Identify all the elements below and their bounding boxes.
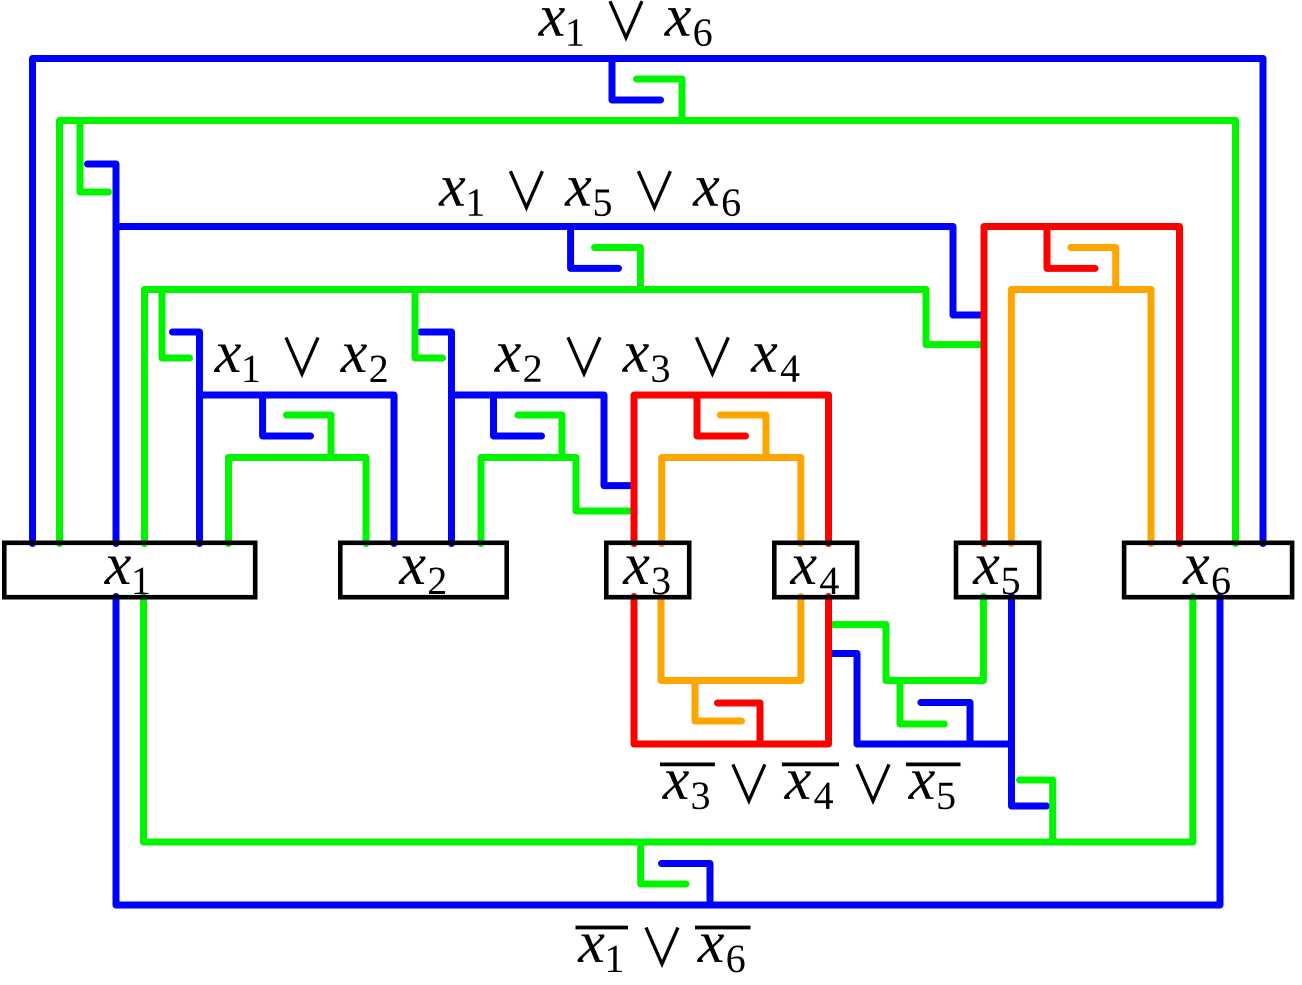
wire blue clause x1vx6 top run from box x1 up across and down into box x6: [33, 59, 1264, 544]
wire green hook of nx5 link: [900, 681, 944, 725]
wire green rise hook interlocking blue x5 tail: [1020, 780, 1053, 842]
wire green stub hook interlocking blue x1vx5vx6 vertical: [80, 121, 109, 193]
wire blue center hook of clause x1vx5vx6: [571, 227, 619, 269]
wire green center hook of clause x2vx3vx4: [518, 415, 562, 458]
wire green clause nx1vnx6 bottom run from box x1 down across and up into box x6: [144, 597, 1193, 843]
wire blue bottom-center hook of clause nx1vnx6: [662, 864, 711, 906]
wire red hook interlocking orange at x5x6 loop: [1047, 227, 1095, 269]
wire orange hook interlocking red at x5x6 loop: [1071, 248, 1116, 290]
label clause x2 or x3 or x4: [494, 344, 521, 372]
wire green top-center hook of clause x1vx6: [637, 79, 683, 121]
wire blue clause x2vx3vx4 vertical into box x2 with interlock hook: [421, 332, 452, 544]
wire green stub hook interlocking blue x1vx2 vertical: [162, 290, 190, 359]
wire orange loop top through boxes x3 x4: [662, 458, 801, 544]
label of variable box x3: [622, 556, 649, 584]
wire blue clause x1vx5vx6 main run ending at red loop: [116, 227, 984, 316]
variable box x4: [774, 543, 857, 597]
label of variable box x2: [399, 556, 426, 584]
wire orange loop bottom through boxes x3 x4: [661, 597, 801, 681]
wire blue below box x5 tail hooking green bottom loop: [1012, 597, 1047, 807]
wire blue clause x1vx5vx6 vertical into box x1 with interlock hook: [88, 164, 117, 544]
wire red loop top through boxes x3 x4: [634, 395, 829, 544]
label clause not-x1 or not-x6: [577, 934, 604, 962]
wire red loop bottom through boxes x3 x4 clause nx3vnx4vnx5: [634, 597, 829, 745]
wire orange bottom hook interlocking red: [695, 681, 742, 722]
wire green stub hook interlocking blue x2vx3vx4 vertical: [415, 290, 443, 359]
wire blue clause x1vx2 vertical into box x1 with interlock hook: [173, 332, 200, 544]
wire green clause x2vx3vx4 main run ending at red loop: [481, 458, 634, 544]
wire blue center hook of clause x2vx3vx4: [494, 395, 542, 436]
wire green clause x1vx5vx6 main run ending at red loop: [145, 290, 985, 544]
wire green nx5 link from below box x5 to red loop: [829, 597, 984, 681]
wire green center hook of clause x1vx2: [287, 415, 332, 458]
label clause x1 or x6: [538, 8, 565, 36]
wire blue top-center hook of clause x1vx6: [612, 59, 661, 101]
wire green center hook of clause x1vx5vx6: [595, 248, 641, 290]
wire blue clause nx1vnx6 bottom run from box x1 down across and up into box x6: [116, 597, 1220, 906]
wire red bottom hook interlocking orange: [718, 703, 761, 744]
wire orange top hook interlocking red: [720, 415, 766, 458]
label of variable box x4: [790, 556, 817, 584]
variable box x3: [606, 543, 689, 597]
wire red top hook interlocking orange: [697, 395, 746, 436]
wire green bottom-center hook of clause nx1vnx6: [641, 842, 686, 884]
wire green clause x1vx6 top run from box x1 up across and down into box x6: [60, 121, 1236, 544]
label of variable box x6: [1182, 556, 1209, 584]
wire blue clause x1vx2 main run into box x2: [200, 395, 395, 544]
wire blue nx5 link from red loop to below box x5: [829, 654, 1012, 745]
label clause not-x3 or not-x4 or not-x5: [662, 771, 689, 799]
variable box x2: [340, 543, 506, 597]
wire blue clause x2vx3vx4 main run ending at red loop: [452, 395, 635, 486]
variable box x6: [1124, 543, 1292, 597]
wire orange loop top through boxes x5 x6: [1011, 290, 1151, 544]
wire green clause x1vx2 main run between boxes x1 and x2: [229, 458, 367, 544]
wire red loop top through boxes x5 x6: [984, 227, 1180, 544]
label clause x1 or x5 or x6: [438, 178, 465, 206]
wire blue hook of nx5 link: [921, 703, 970, 745]
variable box x1: [4, 543, 255, 597]
label of variable box x1: [104, 556, 131, 584]
label clause x1 or x2: [214, 344, 241, 372]
label of variable box x5: [972, 556, 999, 584]
wire blue center hook of clause x1vx2: [263, 395, 311, 436]
variable box x5: [956, 543, 1039, 597]
